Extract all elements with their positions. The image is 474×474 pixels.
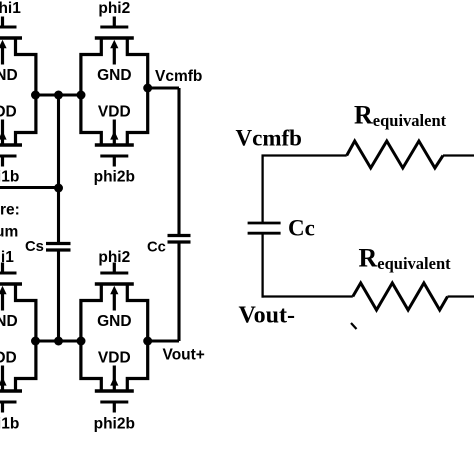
transistor S1-N gate plate	[0, 26, 17, 29]
svg-text:VDD: VDD	[98, 349, 131, 366]
transistor S4-P gate plate	[100, 401, 128, 404]
transistor S1-P gate plate	[0, 155, 17, 158]
transistor S1-P gate stub	[1, 156, 4, 167]
transistor S1-P right leg wire	[16, 95, 36, 145]
svg-text:phi1b: phi1b	[0, 416, 19, 433]
capacitor Cc (equivalent) top plate	[248, 222, 281, 225]
transistor S3-N channel	[0, 282, 22, 285]
transistor S3-P gate stub	[1, 402, 4, 413]
transistor S4-N right leg wire	[127, 284, 147, 341]
junction dot bottom bus left	[31, 337, 40, 346]
transistor S2-P gate plate	[100, 155, 128, 158]
wire Vcmfb to Cc branch	[148, 86, 179, 89]
capacitor Cs bottom plate	[46, 248, 71, 251]
transistor S3-P channel	[0, 389, 22, 392]
transistor S2-N gate plate	[100, 26, 128, 29]
wire Cc branch vertical upper	[177, 88, 180, 235]
transistor S1-N bulk arrow	[1, 48, 4, 65]
transistor S1-N gate stub	[1, 17, 4, 28]
resistor R_equivalent (top)	[347, 141, 443, 168]
transistor S2-P gate stub	[113, 156, 116, 167]
transistor S3-N right leg wire	[16, 284, 36, 341]
transistor S1-N channel	[0, 36, 22, 39]
wire Cc branch to Vout+ node	[148, 339, 179, 342]
svg-text:um: um	[0, 224, 18, 241]
transistor S3-P gate plate	[0, 401, 17, 404]
junction dot node Vout+	[143, 337, 152, 346]
wire top bus between S1 and S2	[36, 93, 82, 96]
capacitor Cc (left) bottom plate	[168, 240, 191, 243]
transistor S2-N right leg wire	[127, 38, 147, 95]
transistor S2-N bulk arrow	[113, 48, 116, 65]
wire from left edge at phi1b level	[0, 186, 59, 189]
junction dot at middle vertical / phi1b wire	[54, 184, 63, 193]
svg-text:Vout+: Vout+	[163, 347, 205, 364]
wire middle vertical upper segment	[57, 95, 60, 243]
svg-text:VDD: VDD	[0, 349, 17, 366]
transistor S4-N left leg wire	[81, 284, 101, 341]
svg-text:Cc: Cc	[288, 216, 315, 241]
stray accent mark	[351, 323, 357, 329]
wire Cc branch vertical lower	[177, 242, 180, 341]
svg-text:VDD: VDD	[98, 103, 131, 120]
transistor S2-P bulk arrow	[113, 120, 116, 145]
wire equivalent bottom left	[262, 295, 353, 297]
svg-text:GND: GND	[0, 67, 18, 84]
capacitor Cc (left) top plate	[168, 234, 191, 237]
transistor S2-N gate stub	[113, 17, 116, 28]
transistor S4-N bulk arrow	[113, 294, 116, 311]
transistor S2-P channel	[95, 143, 134, 146]
transistor S4-P left leg wire	[81, 341, 101, 391]
junction dot node Vcmfb	[143, 84, 152, 93]
svg-text:phi2: phi2	[98, 0, 130, 17]
svg-text:Vcmfb: Vcmfb	[236, 126, 302, 151]
junction dot bottom bus middle	[54, 337, 63, 346]
svg-text:Vout-: Vout-	[239, 303, 295, 329]
svg-text:Cc: Cc	[147, 240, 166, 256]
wire equivalent left vertical lower	[261, 233, 263, 297]
transistor S4-P right leg wire	[127, 341, 147, 391]
junction dot top bus left	[31, 91, 40, 100]
transistor S4-N gate plate	[100, 272, 128, 275]
transistor S4-N gate stub	[113, 263, 116, 274]
svg-text:VDD: VDD	[0, 103, 17, 120]
svg-text:phi2b: phi2b	[94, 416, 135, 433]
svg-text:Vcmfb: Vcmfb	[155, 68, 202, 85]
svg-text:phi2b: phi2b	[94, 169, 135, 186]
wire bottom bus between S3 and S4	[36, 339, 82, 342]
wire equivalent top left	[262, 154, 347, 156]
wire equivalent top right	[443, 154, 474, 156]
svg-text:GND: GND	[97, 67, 131, 84]
wire equivalent left vertical upper	[261, 155, 263, 224]
transistor S4-P bulk arrow	[113, 366, 116, 391]
junction dot top bus right	[77, 91, 86, 100]
wire equivalent bottom right	[448, 295, 474, 297]
transistor S3-N bulk arrow	[1, 294, 4, 311]
svg-text:phi1b: phi1b	[0, 169, 19, 186]
svg-text:phi1: phi1	[0, 0, 21, 17]
transistor S2-P left leg wire	[81, 95, 101, 145]
transistor S2-N channel	[95, 36, 134, 39]
transistor S3-N gate stub	[1, 263, 4, 274]
transistor S3-N gate plate	[0, 272, 17, 275]
transistor S3-P bulk arrow	[1, 366, 4, 391]
transistor S2-P right leg wire	[127, 95, 147, 145]
transistor S2-N left leg wire	[81, 38, 101, 95]
transistor S4-N channel	[95, 282, 134, 285]
svg-text:re:: re:	[0, 202, 20, 219]
transistor S4-P gate stub	[113, 402, 116, 413]
resistor R_equivalent (bottom)	[353, 283, 448, 310]
transistor S1-P bulk arrow	[1, 120, 4, 145]
svg-text:GND: GND	[97, 313, 131, 330]
transistor S3-P right leg wire	[16, 341, 36, 391]
junction dot bottom bus right	[77, 337, 86, 346]
wire middle vertical lower segment	[57, 250, 60, 341]
svg-text:GND: GND	[0, 313, 18, 330]
transistor S1-P channel	[0, 143, 22, 146]
capacitor Cc (equivalent) bottom plate	[248, 232, 281, 235]
junction dot top bus middle	[54, 91, 63, 100]
svg-text:Cs: Cs	[25, 239, 44, 255]
transistor S4-P channel	[95, 389, 134, 392]
capacitor Cs top plate	[46, 242, 71, 245]
transistor S1-N right leg wire	[16, 38, 36, 95]
